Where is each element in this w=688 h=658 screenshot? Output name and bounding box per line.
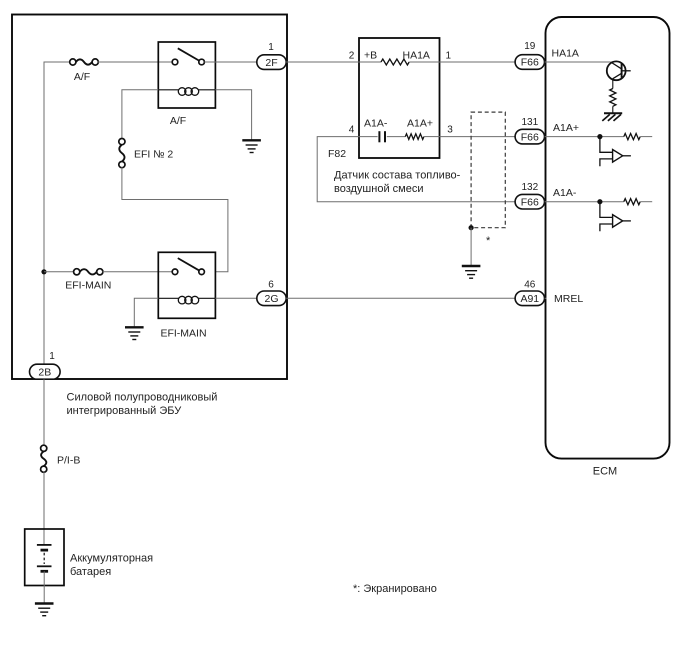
resistor A1A+ (ECM) [624, 134, 640, 140]
node: A1A+ junction [597, 134, 602, 139]
svg-text:EFI-MAIN: EFI-MAIN [65, 280, 111, 292]
label MREL (ECM) [554, 293, 583, 305]
node: junction at EFI-MAIN branch [41, 269, 46, 274]
wire after resistor A1A+ [640, 136, 652, 138]
sensor box F82 [359, 38, 440, 158]
wire: connector 2F to sensor pin 2 [286, 61, 359, 63]
ground: shield [462, 266, 481, 278]
label A1A+ (ECM) [553, 122, 579, 134]
svg-text:A/F: A/F [170, 115, 186, 127]
resistor A1A- (ECM) [624, 199, 640, 205]
comparator A1A+ [600, 137, 631, 167]
wire heater resistor to sensor pin 1 [409, 61, 439, 63]
wire resistor to sensor pin 3 [424, 136, 440, 138]
wire: sensor pin 1 to connector F66 pin 19 [440, 61, 516, 63]
fuse EFI-MAIN [74, 269, 103, 275]
label HA1A (sensor) [403, 49, 430, 61]
svg-text:Аккумуляторная: Аккумуляторная [70, 553, 153, 565]
svg-text:1: 1 [268, 42, 274, 53]
svg-text:EFI-MAIN: EFI-MAIN [160, 328, 206, 340]
chassis ground inside ECM [602, 113, 622, 121]
connector F66 pin 131 [515, 129, 544, 144]
node: shield drain junction [469, 225, 474, 230]
connector 2B [30, 364, 61, 379]
relay A/F switch blade [178, 48, 200, 61]
pin 132 label [521, 182, 538, 193]
wire: 2B down to fuse P/I-B [43, 379, 45, 445]
svg-text:46: 46 [524, 279, 536, 290]
relay A/F box [158, 42, 215, 108]
outer box: power semiconductor integrated ECU [12, 15, 287, 380]
label EFI No.2 [134, 149, 173, 161]
svg-text:2B: 2B [38, 366, 51, 378]
battery box [25, 529, 64, 586]
svg-text:19: 19 [524, 41, 536, 52]
connector 2G [257, 291, 286, 306]
fuse P/I-B [41, 445, 47, 472]
wire: sensor pin 3 to connector F66 pin 131 [440, 136, 516, 138]
svg-text:2: 2 [349, 50, 355, 61]
label fuse EFI-MAIN [65, 280, 111, 292]
wire after resistor A1A- [640, 201, 652, 203]
ground: relay EFI-MAIN coil [125, 327, 144, 339]
wire: transistor to resistor [612, 79, 614, 89]
wire: battery to ground [43, 571, 45, 603]
svg-text:3: 3 [447, 124, 453, 135]
resistor: sensor heater [381, 59, 409, 65]
relay A/F switch contacts [172, 59, 204, 65]
svg-text:A1A-: A1A- [364, 117, 388, 129]
battery cells [37, 545, 52, 571]
connector 2F [257, 55, 286, 70]
svg-text:A1A+: A1A+ [407, 117, 433, 129]
resistor below transistor [610, 89, 616, 107]
label F82 [328, 148, 346, 160]
svg-text:HA1A: HA1A [403, 49, 430, 61]
wire: EFI No.2 fuse up to relay A/F coil [122, 90, 158, 139]
svg-text:HA1A: HA1A [552, 48, 579, 60]
ground: relay A/F coil [242, 140, 261, 152]
shield (dashed) around A1A wires [471, 112, 505, 228]
label HA1A (ECM) [552, 48, 579, 60]
label P/I-B [57, 454, 80, 466]
svg-text:интегрированный ЭБУ: интегрированный ЭБУ [67, 405, 183, 417]
wire: relay A/F switch to connector 2F [204, 61, 256, 63]
wire: A91 into ECM [545, 297, 547, 299]
svg-text:Датчик состава топливо-: Датчик состава топливо- [334, 170, 461, 182]
connector A91 pin 46 [515, 291, 544, 306]
svg-text:P/I-B: P/I-B [57, 454, 80, 466]
wire: relay A/F coil to ground [215, 90, 251, 140]
svg-text:*: Экранировано: *: Экранировано [353, 583, 437, 595]
wire: fuse P/I-B to battery [43, 472, 45, 545]
wire capacitor to resistor [387, 136, 406, 138]
wire: relay EFI-MAIN coil to ground [134, 298, 158, 327]
wire: sensor pin 4 loop around to A1A- row [317, 137, 515, 202]
svg-text:+B: +B [364, 49, 377, 61]
pin 6 label of connector 2G [268, 279, 274, 290]
svg-text:F66: F66 [521, 196, 539, 208]
svg-text:A1A-: A1A- [553, 187, 577, 199]
connector F66 pin 132 [515, 194, 544, 209]
wire inside sensor to capacitor [359, 136, 378, 138]
wire: relay EFI-MAIN coil to connector 2G [215, 297, 256, 299]
relay A/F coil [158, 88, 215, 96]
fuse A/F [70, 59, 99, 65]
label relay A/F [170, 115, 186, 127]
label A1A+ (sensor) [407, 117, 433, 129]
relay EFI-MAIN switch contacts [172, 269, 204, 275]
note: shielded (Russian) [353, 583, 437, 595]
label * (shield note) [486, 235, 491, 247]
relay EFI-MAIN coil [158, 296, 215, 304]
wire: junction to fuse EFI-MAIN [44, 271, 74, 273]
svg-text:F82: F82 [328, 148, 346, 160]
ground: battery [35, 604, 54, 616]
pin 1 of sensor [446, 50, 452, 61]
transistor (heater driver) [607, 61, 631, 80]
label relay EFI-MAIN [160, 328, 206, 340]
pin 131 label [521, 117, 538, 128]
pin 4 of sensor [349, 124, 355, 135]
svg-text:батарея: батарея [70, 566, 111, 578]
relay EFI-MAIN switch blade [178, 258, 200, 271]
svg-text:4: 4 [349, 124, 355, 135]
svg-text:воздушной смеси: воздушной смеси [334, 183, 423, 195]
svg-text:131: 131 [521, 117, 538, 128]
pin 3 of sensor [447, 124, 453, 135]
fuse EFI No.2 [119, 139, 125, 168]
wire: resistor to chassis ground [612, 106, 614, 113]
svg-text:A1A+: A1A+ [553, 122, 579, 134]
label A1A- (sensor) [364, 117, 388, 129]
pin 2 of sensor [349, 50, 355, 61]
wire: shield to ground [470, 228, 472, 266]
resistor (sensor element) [405, 134, 424, 140]
ECM box [546, 17, 670, 459]
label battery (Russian) [70, 553, 153, 579]
svg-text:132: 132 [521, 182, 538, 193]
comparator A1A- [600, 202, 631, 232]
svg-text:*: * [486, 235, 491, 247]
wire: fuse EFI No.2 down and across to relay EFI-MAIN switch [122, 167, 228, 271]
svg-text:Силовой полупроводниковый: Силовой полупроводниковый [67, 392, 218, 404]
wire: ECM A1A- line [545, 201, 624, 203]
svg-text:1: 1 [49, 351, 55, 362]
wire: main battery feed vertical [44, 62, 71, 364]
relay EFI-MAIN box [158, 252, 215, 318]
pin 19 label [524, 41, 536, 52]
label +B [364, 49, 377, 61]
pin 1 label of connector 2F [268, 42, 274, 53]
svg-text:6: 6 [268, 279, 274, 290]
pin 46 label [524, 279, 536, 290]
wire inside sensor to heater resistor [359, 61, 381, 63]
svg-text:ECM: ECM [593, 466, 617, 478]
label fuse A/F [74, 71, 90, 83]
label: air-fuel ratio sensor (Russian) [334, 170, 461, 196]
wire: ECM HA1A to transistor [545, 61, 611, 63]
svg-text:2G: 2G [264, 293, 278, 305]
svg-text:MREL: MREL [554, 293, 583, 305]
wire: fuse EFI-MAIN to relay [103, 271, 173, 273]
svg-text:1: 1 [446, 50, 452, 61]
svg-text:2F: 2F [265, 57, 277, 69]
wire: fuse A/F to relay A/F switch [98, 61, 173, 63]
label ECM [593, 466, 617, 478]
label A1A- (ECM) [553, 187, 577, 199]
label: Силовой полупроводниковый интегрированный ЭБУ [67, 392, 218, 418]
svg-text:F66: F66 [521, 57, 539, 69]
svg-text:A91: A91 [520, 293, 539, 305]
pin 1 label of connector 2B [49, 351, 55, 362]
connector F66 pin 19 [515, 55, 544, 70]
wire: connector 2G to connector A91 [286, 297, 515, 299]
wire: ECM A1A+ line [545, 136, 624, 138]
node: A1A- junction [597, 199, 602, 204]
svg-text:F66: F66 [521, 131, 539, 143]
svg-text:A/F: A/F [74, 71, 90, 83]
svg-text:EFI № 2: EFI № 2 [134, 149, 173, 161]
capacitor (sensor element) [379, 131, 385, 142]
